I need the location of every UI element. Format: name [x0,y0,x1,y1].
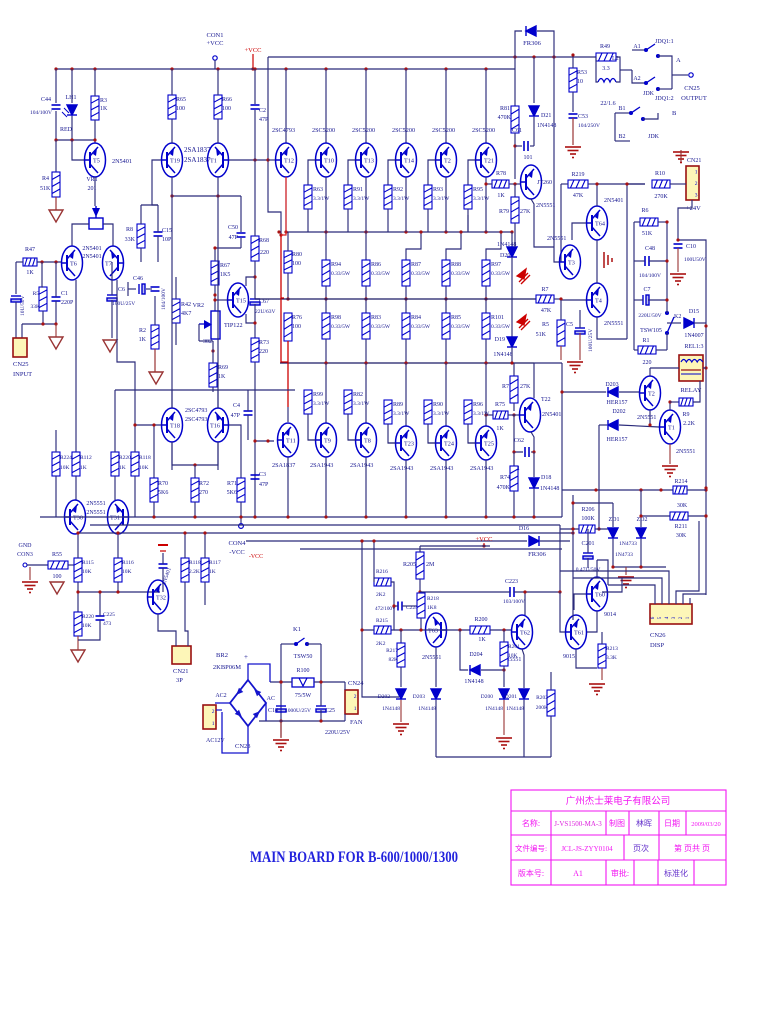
resistor R4 [55,140,57,172]
svg-text:TSW50: TSW50 [294,654,313,660]
svg-text:T6: T6 [70,261,77,268]
wire D202 drop [598,425,600,529]
svg-text:1: 1 [354,706,357,712]
transistor T64 2N5401 [586,206,608,240]
svg-text:100: 100 [292,261,301,267]
svg-text:R66: R66 [222,97,232,103]
ground tri input [55,324,57,337]
resistor R220b [74,612,82,636]
svg-text:220: 220 [259,349,268,355]
svg-text:R89: R89 [393,402,403,408]
wire T63 base row [394,629,470,631]
svg-text:2SA1943: 2SA1943 [470,465,493,472]
resistor R81 470K [514,69,516,106]
svg-text:2N5401: 2N5401 [112,158,132,165]
svg-text:3P: 3P [176,677,183,684]
resistor R117 [201,558,209,582]
svg-text:R67: R67 [220,263,230,269]
capacitor C6 [107,295,117,301]
capacitor C225 [96,616,105,620]
svg-text:3.3/1W: 3.3/1W [393,411,410,417]
svg-text:302: 302 [203,339,212,345]
svg-text:R99: R99 [313,392,323,398]
wire base stub [468,160,476,185]
svg-text:BR2: BR2 [216,652,228,659]
resistor R83 0.33/5W [365,299,367,313]
wire VR1 to T6 [72,224,89,246]
wire +24 right rail [678,240,706,595]
wire T11 base rail [255,440,274,442]
resistor R91 3.3/1W [344,185,352,209]
svg-text:200K: 200K [536,705,548,711]
svg-text:9014: 9014 [604,612,616,618]
connector CN26 DISP [650,604,692,624]
wire T19 base loop [152,160,161,205]
resistor R55 [48,561,68,569]
wire emitter bus y232 [286,231,512,233]
svg-text:3.3/1W: 3.3/1W [313,401,330,407]
svg-text:T24: T24 [444,441,454,448]
svg-text:R79: R79 [499,209,509,215]
wire K1 vert left [280,644,282,737]
wire red mid-low [281,298,288,362]
transistor T6 2N5401 [61,246,83,280]
svg-text:T10: T10 [324,158,334,165]
wire red vcc-mid [281,235,284,298]
svg-text:D200: D200 [481,694,493,700]
wire R118b to CN21 [185,620,188,646]
svg-text:2: 2 [354,694,357,700]
capacitor C67 [250,299,260,305]
svg-text:C62: C62 [514,438,524,444]
wire bus y541 [246,540,527,542]
svg-text:47K: 47K [541,308,552,314]
red cap marker [158,544,168,546]
ground tri below R2 [149,372,163,384]
svg-text:D19: D19 [495,337,505,343]
svg-text:2SC5200: 2SC5200 [392,127,415,134]
transistor T21 2SC5200 [485,69,487,143]
svg-text:R201: R201 [508,644,520,650]
resistor R90 3.3/1W [424,400,432,424]
svg-text:103/100V: 103/100V [503,599,525,605]
svg-text:R95: R95 [473,187,483,193]
svg-text:220: 220 [643,360,652,366]
wire T18 T16 emitter U [172,442,218,465]
svg-text:3.3/1W: 3.3/1W [473,411,490,417]
svg-text:0.33/5W: 0.33/5W [491,324,511,330]
svg-text:1N4148: 1N4148 [493,352,512,358]
svg-text:R90: R90 [433,402,443,408]
svg-text:R3: R3 [100,98,107,104]
svg-text:1K: 1K [80,465,87,471]
resistor R3 [91,96,99,120]
wire T2 emitter [649,410,651,425]
svg-text:4K7: 4K7 [181,311,191,317]
svg-text:47P: 47P [259,117,269,123]
wire col down [445,215,447,232]
svg-text:R214: R214 [674,479,687,485]
svg-text:R200: R200 [474,617,487,623]
svg-text:R100: R100 [296,668,309,674]
svg-text:470K: 470K [498,115,512,121]
capacitor C5 [575,328,585,334]
svg-text:R1: R1 [642,338,649,344]
svg-text:100K: 100K [581,516,595,522]
svg-text:R87: R87 [411,262,421,268]
svg-text:2: 2 [212,709,215,715]
svg-text:2SA1837: 2SA1837 [184,156,211,164]
ground tri below C6 [103,340,117,352]
svg-text:T32: T32 [156,595,166,602]
svg-text:FR306: FR306 [523,40,541,47]
svg-text:R49: R49 [600,44,610,50]
svg-text:R216: R216 [376,569,388,575]
svg-text:R219: R219 [571,172,584,178]
wire top bus2 [268,56,596,58]
ground T1 [662,466,678,477]
wire vcc rail y553 [419,546,421,552]
junction input [40,260,43,263]
svg-text:页次: 页次 [633,843,649,853]
svg-text:1N4148: 1N4148 [464,679,483,685]
svg-text:K2: K2 [674,314,681,320]
resistor R84 0.33/5W [405,299,407,313]
wire x562 mid [561,438,563,517]
svg-text:T7: T7 [105,261,112,268]
svg-text:2N5401: 2N5401 [82,254,101,260]
svg-text:10K: 10K [508,653,518,659]
svg-text:D15: D15 [689,309,699,315]
svg-text:2N5551: 2N5551 [604,321,623,327]
wire T62 collector [524,592,526,615]
transistor T14 2SC5200 [405,69,407,143]
svg-text:0.47U/50V: 0.47U/50V [576,567,601,573]
svg-text:T18: T18 [170,423,180,430]
svg-text:T15: T15 [236,298,246,305]
svg-text:3.3K: 3.3K [606,655,617,661]
svg-text:D21: D21 [541,113,551,119]
connector CN24 FAN [345,690,358,714]
svg-text:DISP: DISP [650,642,664,649]
svg-text:R5: R5 [542,322,549,328]
red arrow out1 [517,269,530,284]
svg-text:R101: R101 [491,315,504,321]
svg-text:R96: R96 [473,402,483,408]
svg-text:B2: B2 [618,134,625,140]
svg-text:10K: 10K [82,623,92,629]
wire x362 drop [362,541,374,630]
svg-text:220U/25V: 220U/25V [325,730,351,736]
svg-text:R213: R213 [606,646,618,652]
wire bridge left [215,702,230,704]
svg-text:T61: T61 [574,630,584,637]
svg-text:0.33/5W: 0.33/5W [331,271,351,277]
resistor R94 0.33/5W [325,232,327,260]
wire x554 to T3 [554,247,559,262]
transistor T24 2SA1943 [445,363,447,426]
svg-text:100: 100 [222,106,231,112]
capacitor C3 [251,475,260,479]
svg-text:47P: 47P [229,235,239,241]
svg-text:D201: D201 [505,694,517,700]
wire mid-left bus y390 [115,389,295,391]
svg-text:22U/63V: 22U/63V [255,309,276,315]
transistor T25 2SA1943 [485,363,487,426]
transistor T60 9014 [586,577,608,611]
wire junction row [56,139,95,141]
resistor R93 3.3/1W [424,185,432,209]
transistor T17 2SA1837 [208,143,230,177]
wire emitter rail y196 [172,195,241,197]
svg-text:C225: C225 [103,612,115,618]
transistor T3 2N5551 [559,245,581,279]
diode FR306 top [515,31,522,69]
svg-text:T2: T2 [648,391,655,398]
wire T17 base row [229,159,268,161]
wire bridge right [265,703,267,721]
svg-text:30K: 30K [676,533,687,539]
svg-text:T25: T25 [484,441,494,448]
svg-text:3.3/1W: 3.3/1W [393,196,410,202]
svg-text:C14: C14 [268,708,278,714]
transistor T19 2SA1837 [161,143,183,177]
wire col down [485,215,487,232]
wire T62 emitter [522,649,524,688]
resistor R73 [251,338,259,362]
svg-text:2SA1943: 2SA1943 [390,465,413,472]
resistor R97 0.33/5W [486,232,501,260]
transistor T13 2SC5200 [365,69,367,143]
svg-text:C46: C46 [133,276,143,282]
svg-text:R202: R202 [536,695,548,701]
junction bus1 dots [54,67,57,70]
svg-text:C3: C3 [259,472,266,478]
resistor R116 [114,558,122,582]
svg-text:T31: T31 [110,515,120,522]
wire cap bus [259,720,345,722]
svg-text:-VCC: -VCC [229,549,245,556]
wire bus -vcc y517 [40,516,562,518]
wire sensor row [78,591,160,593]
svg-text:T21: T21 [484,158,494,165]
svg-text:2009/03/20: 2009/03/20 [691,821,721,828]
capacitor C4 [244,411,253,415]
svg-text:R7: R7 [502,384,509,390]
resistor R115 [74,558,82,582]
svg-text:3.3/1W: 3.3/1W [353,196,370,202]
transistor T23 2SA1943 [405,363,407,426]
svg-text:104/100V: 104/100V [639,273,661,279]
svg-text:0.33/5W: 0.33/5W [331,324,351,330]
svg-text:10P: 10P [162,237,172,243]
svg-text:5K6: 5K6 [227,490,237,496]
wire T15 collector [246,277,255,286]
capacitor C1 [52,297,61,301]
svg-text:CN23: CN23 [235,743,251,750]
svg-text:100: 100 [53,574,62,580]
capacitor C46b [151,287,160,291]
wire T15 emitter [246,314,255,323]
diode D18 1N4148 [533,452,535,477]
svg-text:R74: R74 [500,475,510,481]
svg-text:51K: 51K [642,231,653,237]
wire red to T11 [287,362,289,407]
svg-text:CON3: CON3 [17,552,33,558]
svg-text:T5: T5 [93,158,100,165]
resistor R68b 220 [251,236,259,261]
svg-text:R215: R215 [376,618,388,624]
wire left reg col [560,184,562,262]
wire CN26 stubs [654,598,656,604]
svg-text:2SA1837: 2SA1837 [272,462,295,469]
capacitor C15 [154,232,163,236]
svg-text:2.2K: 2.2K [189,569,200,575]
svg-text:470K: 470K [497,485,511,491]
svg-text:2SC4793: 2SC4793 [185,408,207,414]
transistor T63 2N5551 [426,613,448,647]
svg-text:D16: D16 [519,526,529,532]
svg-text:1N4733: 1N4733 [619,541,637,547]
svg-text:C61: C61 [512,128,522,134]
ground C10 [670,274,686,285]
svg-text:75/5W: 75/5W [295,693,312,699]
resistor R65 [168,95,176,119]
ground D202 [393,724,409,735]
wire VR1 to T7 [103,224,113,246]
svg-text:R97: R97 [491,262,501,268]
resistor R213 3.3K [598,644,606,668]
svg-text:2.2K: 2.2K [683,421,696,427]
svg-text:1N4148: 1N4148 [540,486,559,492]
resistor R80 100 [284,251,292,273]
wire T7 emitter path [117,280,161,425]
svg-text:100U50V: 100U50V [684,257,706,263]
svg-text:CN25: CN25 [13,361,29,368]
transistor T32 2N5401 [147,580,169,614]
svg-text:T2: T2 [444,158,451,165]
svg-text:AC12V: AC12V [206,738,225,744]
svg-text:2N5551: 2N5551 [536,203,555,209]
svg-text:第 页共 页: 第 页共 页 [674,843,710,853]
svg-text:T11: T11 [286,438,296,445]
svg-text:R93: R93 [433,187,443,193]
svg-text:名称:: 名称: [522,818,540,828]
svg-text:1N4148: 1N4148 [537,123,556,129]
transistor T2 2N5551 [639,376,661,410]
svg-text:2SC4793: 2SC4793 [185,417,207,423]
wire y363 to x562 [534,362,562,364]
wire T22 collector [533,363,535,398]
svg-text:R220: R220 [82,614,94,620]
svg-text:R9: R9 [682,412,689,418]
svg-text:270K: 270K [654,194,668,200]
svg-text:D202: D202 [378,694,390,700]
resistor R89 3.3/1W [384,400,392,424]
svg-text:R224: R224 [60,455,72,461]
svg-text:R211: R211 [675,524,688,530]
wire R5C1 join rail [22,323,56,325]
capacitor C14 [276,706,286,712]
wire R220 to T31 top [114,476,116,500]
resistor R118 [131,452,139,476]
svg-text:104/100V: 104/100V [161,288,167,310]
svg-text:C5: C5 [566,322,573,328]
resistor R2 [151,325,159,349]
svg-text:+VCC: +VCC [206,40,223,47]
svg-text:R42: R42 [181,302,191,308]
ground CN21 top [673,152,689,163]
svg-text:D18: D18 [541,475,551,481]
svg-text:1K8: 1K8 [427,605,437,611]
wire base stub [308,160,316,185]
svg-text:1K: 1K [119,465,126,471]
svg-text:R205: R205 [403,562,416,568]
svg-text:R98: R98 [331,315,341,321]
svg-text:T30: T30 [73,515,83,522]
svg-text:33K: 33K [31,304,41,310]
svg-text:R91: R91 [353,187,363,193]
resistor R101 0.33/5W [485,299,487,313]
svg-text:R84: R84 [411,315,421,321]
svg-text:2SC4793: 2SC4793 [272,127,295,134]
svg-text:C44: C44 [41,97,51,103]
svg-text:220P: 220P [61,300,74,306]
svg-text:0.33/5W: 0.33/5W [371,271,391,277]
capacitor C2 [251,105,260,109]
svg-text:R75: R75 [495,402,505,408]
svg-text:审批:: 审批: [611,868,629,878]
svg-text:JDK: JDK [643,91,655,97]
svg-text:R118: R118 [139,455,151,461]
transistor T61 9015 [565,615,587,649]
svg-text:JCL-JS-ZYY0104: JCL-JS-ZYY0104 [561,845,613,853]
svg-text:10K: 10K [122,569,132,575]
wire rail y490 [562,489,673,491]
wire T32 to CN21 [158,614,176,646]
resistor R95 3.3/1W [464,185,472,209]
wire reg right col [626,184,628,339]
svg-text:2N5551: 2N5551 [86,501,105,507]
svg-text:TSW105: TSW105 [640,328,662,334]
svg-text:1000U/25V: 1000U/25V [285,708,311,714]
svg-text:FR306: FR306 [528,551,546,558]
svg-text:-VCC: -VCC [249,554,263,560]
svg-text:10K: 10K [82,569,92,575]
ground tri R55 [50,582,64,594]
wire T6 emitter path [75,280,77,452]
wire K2 col [666,222,668,313]
svg-text:0.33/5W: 0.33/5W [371,324,391,330]
svg-text:VR1: VR1 [86,177,97,183]
resistor R88 0.33/5W [446,232,461,260]
svg-text:1K: 1K [26,270,34,276]
svg-text:2SA1943: 2SA1943 [430,465,453,472]
resistor R218 [417,593,425,618]
svg-text:T8: T8 [364,438,371,445]
node CN25 OUTPUT [671,62,673,89]
svg-text:K1: K1 [293,626,301,633]
svg-text:R70: R70 [158,481,168,487]
wire C46 h [127,282,129,296]
svg-text:R92: R92 [393,187,403,193]
connector CN21 +24V [686,166,699,200]
ground supply [273,740,289,751]
wire r216 r215 join [391,582,394,630]
svg-text:2N5551: 2N5551 [86,510,105,516]
svg-text:T63: T63 [428,628,438,635]
svg-text:B: B [672,110,677,117]
